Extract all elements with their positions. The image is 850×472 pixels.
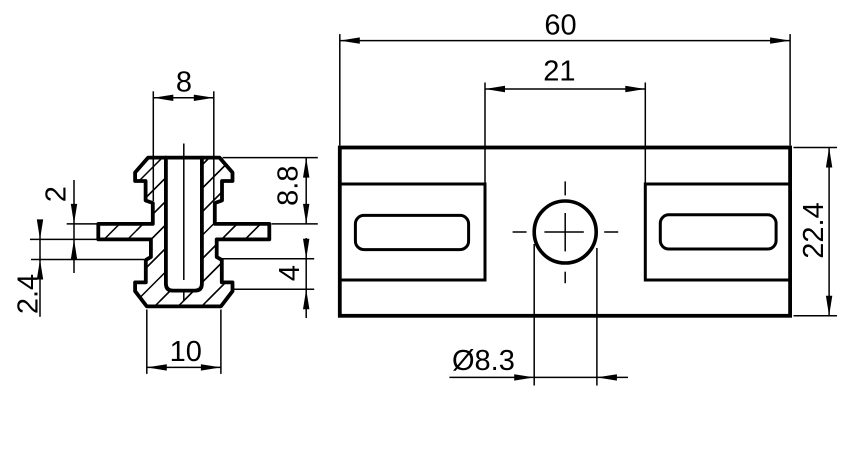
svg-text:8.8: 8.8: [273, 166, 305, 206]
svg-text:2: 2: [40, 186, 72, 202]
svg-text:4: 4: [274, 265, 306, 281]
svg-text:8: 8: [176, 67, 192, 99]
svg-text:21: 21: [543, 55, 575, 87]
svg-text:60: 60: [544, 10, 576, 42]
svg-text:2.4: 2.4: [13, 274, 45, 314]
svg-text:10: 10: [170, 336, 202, 368]
svg-text:22.4: 22.4: [798, 202, 830, 258]
svg-text:Ø8.3: Ø8.3: [452, 345, 515, 377]
